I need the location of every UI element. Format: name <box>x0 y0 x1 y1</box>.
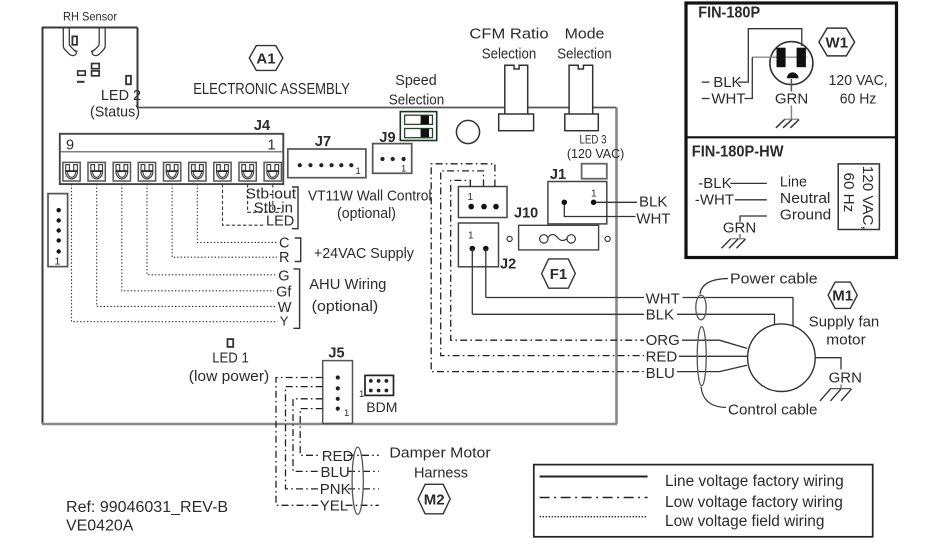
svg-text:WHT: WHT <box>636 211 670 228</box>
svg-text:J1: J1 <box>550 167 566 183</box>
svg-text:ORG: ORG <box>646 332 680 349</box>
svg-text:Harness: Harness <box>414 465 468 482</box>
svg-text:Supply fan: Supply fan <box>809 314 879 331</box>
svg-text:(low power): (low power) <box>189 368 269 385</box>
svg-text:1: 1 <box>344 408 349 419</box>
svg-text:Neutral: Neutral <box>780 190 831 207</box>
svg-text:Low voltage field wiring: Low voltage field wiring <box>665 513 824 530</box>
svg-text:J5: J5 <box>328 346 344 362</box>
svg-text:Mode: Mode <box>565 26 605 43</box>
svg-text:1: 1 <box>268 138 276 154</box>
svg-text:Low voltage factory wiring: Low voltage factory wiring <box>665 494 843 511</box>
svg-text:Damper Motor: Damper Motor <box>389 445 490 462</box>
svg-text:LED 3: LED 3 <box>580 133 607 147</box>
svg-text:WHT: WHT <box>711 90 745 107</box>
svg-text:(optional): (optional) <box>312 298 379 315</box>
svg-text:RH Sensor: RH Sensor <box>63 12 117 24</box>
svg-text:PNK: PNK <box>320 481 351 498</box>
svg-text:J4: J4 <box>254 118 270 134</box>
svg-text:+24VAC Supply: +24VAC Supply <box>314 245 414 262</box>
svg-text:YEL: YEL <box>320 498 348 515</box>
svg-text:1: 1 <box>468 231 474 242</box>
svg-text:Selection: Selection <box>482 46 536 63</box>
svg-text:AHU Wiring: AHU Wiring <box>309 276 386 293</box>
svg-text:Y: Y <box>280 314 289 329</box>
svg-text:Line voltage factory wiring: Line voltage factory wiring <box>665 473 844 490</box>
svg-text:(optional): (optional) <box>337 205 396 222</box>
svg-text:BLU: BLU <box>321 464 350 481</box>
svg-text:J10: J10 <box>514 206 538 222</box>
svg-text:ELECTRONIC ASSEMBLY: ELECTRONIC ASSEMBLY <box>193 81 350 98</box>
svg-text:BDM: BDM <box>366 399 397 415</box>
svg-text:Control cable: Control cable <box>728 402 818 419</box>
svg-text:WHT: WHT <box>646 291 680 308</box>
svg-text:W1: W1 <box>826 35 849 52</box>
svg-text:motor: motor <box>826 332 865 349</box>
svg-text:G: G <box>278 269 289 285</box>
svg-text:1: 1 <box>359 389 364 400</box>
svg-text:Power cable: Power cable <box>730 271 818 288</box>
svg-text:FIN-180P-HW: FIN-180P-HW <box>692 144 784 161</box>
svg-text:GRN: GRN <box>829 370 862 387</box>
svg-text:-BLK: -BLK <box>698 175 731 192</box>
svg-text:LED 1: LED 1 <box>212 350 249 367</box>
svg-text:60 Hz: 60 Hz <box>840 173 857 213</box>
svg-text:Line: Line <box>780 174 807 191</box>
svg-text:120 VAC,: 120 VAC, <box>829 72 888 89</box>
svg-text:Selection: Selection <box>557 46 611 63</box>
svg-text:RED: RED <box>646 349 678 366</box>
svg-text:120 VAC,: 120 VAC, <box>859 166 876 230</box>
svg-text:1: 1 <box>356 166 361 177</box>
svg-text:J7: J7 <box>315 134 331 150</box>
svg-text:1: 1 <box>468 192 474 203</box>
svg-text:BLK: BLK <box>639 194 667 211</box>
svg-text:A1: A1 <box>256 51 275 68</box>
svg-text:9: 9 <box>66 138 74 154</box>
svg-text:Gf: Gf <box>276 285 292 301</box>
svg-text:CFM Ratio: CFM Ratio <box>469 26 548 43</box>
svg-text:Ref: 99046031_REV-B: Ref: 99046031_REV-B <box>66 499 228 516</box>
svg-text:RED: RED <box>322 448 354 465</box>
svg-text:Speed: Speed <box>395 72 436 89</box>
svg-text:1: 1 <box>55 256 61 268</box>
svg-text:GRN: GRN <box>723 220 756 237</box>
svg-text:LED: LED <box>266 214 294 230</box>
svg-text:60 Hz: 60 Hz <box>840 91 877 108</box>
svg-text:J2: J2 <box>500 257 516 273</box>
svg-text:1: 1 <box>591 189 597 200</box>
svg-text:VE0420A: VE0420A <box>66 518 134 535</box>
svg-text:M2: M2 <box>424 492 445 509</box>
svg-text:BLK: BLK <box>646 307 674 324</box>
svg-text:Ground: Ground <box>780 207 831 224</box>
svg-text:Selection: Selection <box>389 92 444 109</box>
svg-text:M1: M1 <box>832 288 853 305</box>
svg-text:VT11W Wall Control: VT11W Wall Control <box>308 188 432 205</box>
svg-text:FIN-180P: FIN-180P <box>698 5 760 22</box>
svg-text:BLK: BLK <box>713 74 741 91</box>
svg-text:GRN: GRN <box>775 90 808 107</box>
svg-text:1: 1 <box>401 164 406 175</box>
svg-text:(Status): (Status) <box>90 104 140 121</box>
svg-text:(120 VAC): (120 VAC) <box>567 146 625 161</box>
svg-text:-WHT: -WHT <box>695 191 734 208</box>
svg-text:F1: F1 <box>550 266 568 283</box>
svg-text:BLU: BLU <box>646 365 675 382</box>
svg-text:R: R <box>279 250 289 266</box>
svg-text:LED 2: LED 2 <box>101 87 141 104</box>
